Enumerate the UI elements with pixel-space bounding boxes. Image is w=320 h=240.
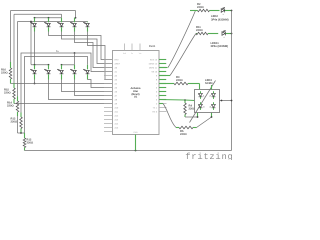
LED module diode D2 — [210, 91, 216, 99]
svg-text:220Ω: 220Ω — [196, 29, 203, 32]
svg-text:U1: U1 — [134, 96, 138, 99]
wire LED5 bottom route — [88, 80, 113, 88]
wire LED10 bottom route — [88, 32, 113, 80]
junction node LED1 top — [34, 64, 36, 66]
junction node R13 bottom — [20, 132, 22, 134]
IC top pin labels — [123, 52, 141, 55]
wire IC pin to R11 (curved) — [159, 34, 196, 76]
wire LED2 bottom route — [49, 80, 113, 100]
label R16 — [1, 69, 8, 75]
wire R15 to IC — [14, 103, 113, 105]
label R2 — [197, 3, 204, 9]
junction node LED2 top — [48, 64, 50, 66]
svg-text:220Ω: 220Ω — [1, 72, 8, 75]
wire LED3 bottom route — [62, 80, 113, 92]
wire bus net3 top — [18, 21, 88, 23]
LED module diode D1 — [198, 91, 205, 99]
LED LED9 (row1) — [70, 18, 76, 32]
LED module top pin lead — [211, 85, 213, 90]
junction node net4/LED4col — [74, 52, 76, 54]
wire LED6 to row2 — [34, 32, 36, 65]
junction node R4 tee — [184, 99, 186, 101]
LED LED4 (row2) — [70, 65, 76, 80]
LED LED11 — [222, 30, 232, 39]
LED LED2 — [221, 7, 231, 16]
wire bus net1 top — [11, 11, 76, 18]
label LED11 — [211, 42, 229, 48]
svg-text:220Ω: 220Ω — [4, 92, 11, 95]
IC left pin labels — [115, 58, 121, 129]
resistor R11 — [196, 32, 218, 35]
svg-text:SCM4: SCM4 — [205, 82, 213, 85]
svg-text:fritzing: fritzing — [185, 152, 233, 160]
wire net2 row segment — [35, 17, 62, 19]
wire bottom bus — [25, 150, 232, 152]
svg-text:3v3: 3v3 — [123, 52, 126, 55]
junction node module pin1 — [197, 116, 199, 118]
junction node LED11 out — [231, 33, 233, 35]
wire IC pin to R2 (curved) — [159, 11, 196, 68]
svg-text:GND: GND — [133, 131, 138, 134]
LED LED7 (row1) — [44, 18, 50, 32]
resistor R5 — [179, 126, 197, 129]
svg-text:AREF: AREF — [115, 62, 121, 65]
svg-text:MOSI 11: MOSI 11 — [149, 66, 158, 69]
LED LED1 (row2) — [30, 65, 36, 80]
LED LED10 (row1) — [83, 22, 89, 32]
wire R4 to module pin — [185, 113, 198, 118]
LED module diode D4 — [210, 102, 216, 110]
wire LED8 bottom route — [62, 32, 113, 64]
wire row2 bus b — [62, 64, 75, 66]
resistor R13 — [20, 113, 23, 134]
svg-text:Vin: Vin — [139, 52, 142, 55]
wire LED9 bottom route — [75, 32, 113, 68]
label R15 — [4, 89, 11, 95]
IC right pin leads (green) — [159, 60, 166, 100]
label R14 — [7, 102, 14, 108]
svg-text:220Ω: 220Ω — [7, 105, 14, 108]
wire net4 horizontal — [21, 53, 113, 113]
watermark fritzing — [185, 152, 233, 162]
svg-text:SCK 13: SCK 13 — [150, 58, 158, 61]
svg-text:MISO 12: MISO 12 — [149, 62, 158, 65]
label R12 — [27, 139, 34, 145]
wire R16 to IC — [11, 83, 113, 85]
junction node bus/module — [231, 100, 233, 102]
svg-text:220Ω: 220Ω — [180, 133, 187, 136]
wire IC to R4/module — [159, 100, 195, 101]
label R4 — [189, 105, 196, 111]
IC U1 (microcontroller) body — [113, 51, 160, 135]
wire LED1 bottom — [34, 80, 36, 85]
junction node module pin2 — [211, 116, 213, 118]
IC left pin stubs — [104, 60, 113, 132]
junction node LED7 top — [48, 17, 50, 19]
IC right pin stubs — [159, 60, 167, 112]
svg-text:220Ω: 220Ω — [176, 79, 183, 82]
label Part1 — [149, 45, 156, 48]
net label Tx — [56, 50, 59, 53]
IC top pin stubs — [125, 44, 141, 51]
LED LED6 (row1) — [30, 18, 36, 32]
label R13 — [11, 118, 18, 124]
LED module U2 body — [195, 90, 220, 113]
LED module diode D3 — [198, 102, 205, 110]
junction node net3 branch — [30, 21, 32, 23]
IC GND pin lead — [135, 135, 137, 151]
resistor R16 — [9, 62, 12, 84]
wire LED7 bottom route — [49, 32, 113, 60]
wire R5 to module (diagonal) — [197, 113, 212, 128]
svg-text:Part1: Part1 — [149, 45, 156, 48]
wire row2 bus a — [31, 64, 49, 66]
wire crossing diagonal — [190, 81, 216, 123]
svg-text:220Ω: 220Ω — [11, 121, 18, 124]
LED LED3 (row2) — [57, 65, 63, 80]
resistor R3 — [159, 82, 200, 89]
svg-text:220Ω: 220Ω — [27, 142, 34, 145]
wire net5 horizontal — [25, 57, 88, 134]
resistor R14 — [16, 97, 19, 117]
svg-text:RST: RST — [115, 58, 120, 61]
svg-text:5v: 5v — [131, 52, 133, 55]
wire IC to R5 (curved) — [159, 104, 179, 128]
IC center label — [131, 87, 141, 99]
resistor R15 — [13, 83, 16, 104]
svg-text:3P4s (633NM): 3P4s (633NM) — [211, 45, 229, 48]
IC right pin labels — [149, 58, 158, 113]
wire R14 top drop — [17, 22, 19, 97]
resistor R12 — [23, 133, 26, 151]
junction node bus1/LED4 — [75, 17, 77, 19]
LED LED8 (row1) — [57, 18, 63, 32]
label LED2 — [211, 15, 229, 21]
wire R14 bottom — [18, 116, 25, 133]
resistor R2 — [190, 9, 220, 12]
wire net4 drop to row2 — [74, 53, 76, 65]
wire R16 top drop — [10, 11, 12, 63]
junction node LED6 top — [34, 17, 36, 19]
wire LED4 bottom route — [75, 80, 113, 96]
resistor R4 (vertical) — [184, 100, 187, 117]
LED LED2 (row2) — [44, 65, 50, 80]
wire net3 drop — [30, 22, 32, 65]
label R11 — [196, 26, 203, 32]
svg-text:3P4s (633NM): 3P4s (633NM) — [211, 18, 229, 21]
label R3 — [176, 76, 183, 82]
label R5 — [180, 130, 187, 136]
label GND pin — [133, 131, 138, 134]
wire bus net2 top — [14, 14, 62, 17]
label LED module — [205, 79, 213, 85]
junction node bus/GND pin — [135, 150, 137, 152]
junction node LED3 top — [61, 64, 63, 66]
svg-text:220Ω: 220Ω — [197, 6, 204, 9]
LED LED5 (row2) — [83, 65, 89, 80]
junction node LED2 out — [231, 10, 233, 12]
wire module to right bus — [220, 100, 232, 102]
wire right bus — [231, 11, 233, 151]
svg-text:SS 10: SS 10 — [151, 70, 158, 73]
wire R15 top drop — [13, 14, 15, 83]
